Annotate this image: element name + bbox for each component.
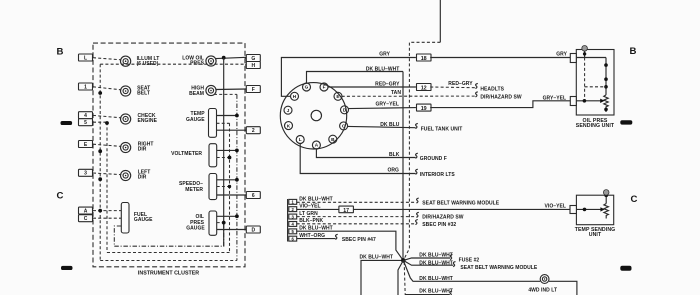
terminal 6 (245, 192, 260, 199)
oil sender case ground (582, 46, 588, 58)
wire HIGH BEAM second to bus (214, 93, 237, 95)
junction dot fuel row bus (98, 209, 102, 213)
wire junction down solid (398, 260, 403, 295)
svg-text:J: J (287, 108, 290, 113)
wire VIO-YEL pin2 to box 17 (297, 204, 339, 210)
lamp ILLUM LT (121, 56, 160, 67)
fuel gauge (121, 203, 153, 234)
svg-text:DK BLU–WHT: DK BLU–WHT (299, 197, 333, 203)
svg-text:SENDING UNIT: SENDING UNIT (576, 123, 615, 129)
instrument cluster dashed border (93, 43, 245, 267)
wire terminal 5 to bus (93, 121, 107, 123)
svg-text:2: 2 (252, 128, 255, 134)
svg-text:B: B (57, 47, 64, 58)
svg-text:19: 19 (421, 106, 427, 112)
svg-text:ORG: ORG (387, 168, 399, 174)
oil sender variable arm arrow (576, 99, 604, 103)
black dash marker left lower (61, 266, 73, 270)
wire BLK-PNK pin4 to SBEC pin 32 (297, 218, 457, 228)
wire LT GRN pin3 to dir/hazard sw (297, 211, 464, 221)
wire DK BLU-WHT from bottom into junction (360, 254, 404, 295)
wire HIGH BEAM lamp to terminal F (216, 88, 247, 91)
pin D (341, 106, 349, 114)
left bus vertical x100 (99, 64, 101, 260)
pin E (334, 92, 342, 100)
wire GRY-YEL pin D to box 19 (348, 101, 416, 108)
svg-text:TAN: TAN (391, 90, 401, 96)
temp sender terminal (570, 206, 576, 214)
terminal 4 (79, 112, 94, 119)
wire GRY to oil pres sending unit (430, 52, 570, 58)
lamp LOW OIL PRES (182, 56, 216, 67)
wire terminal A to fuel gauge (93, 210, 121, 212)
terminal A (79, 207, 94, 214)
wire temp gauge to bus 2 (217, 122, 230, 124)
svg-text:F: F (252, 87, 255, 93)
svg-text:BEAM: BEAM (189, 91, 204, 97)
wire DK BLU-WHT junction to seat belt warning module (403, 260, 538, 271)
oil pressure switch (604, 58, 608, 95)
black dash marker left upper (61, 121, 73, 125)
left bus vertical x107 (106, 122, 108, 252)
speedometer (179, 174, 217, 200)
connector C1 round body (280, 83, 346, 149)
svg-text:GRY–YEL: GRY–YEL (543, 95, 567, 101)
wire terminal C to fuel gauge (93, 217, 121, 219)
voltmeter (171, 144, 217, 167)
lamp CHECK ENGINE (121, 113, 158, 124)
svg-text:L: L (84, 55, 87, 61)
bottom loop wire middle (107, 252, 230, 254)
black dash marker right upper (620, 120, 632, 124)
splice box 17 (339, 206, 354, 214)
svg-text:SEAT BELT WARNING MODULE: SEAT BELT WARNING MODULE (422, 200, 499, 206)
pin F (320, 83, 328, 91)
svg-text:BLK–PNK: BLK–PNK (299, 218, 323, 224)
svg-text:DIR/HAZARD SW: DIR/HAZARD SW (480, 95, 521, 101)
oil sender terminal GRY (570, 54, 576, 63)
svg-text:H: H (251, 63, 255, 69)
lamp 4WD IND LT (528, 275, 557, 294)
svg-text:E: E (336, 94, 339, 99)
junction X (401, 258, 406, 263)
wire WHT-ORG pin6 to SBEC pin 47 (297, 233, 376, 243)
svg-text:G: G (305, 85, 309, 90)
pin H (291, 92, 299, 100)
svg-text:DK BLU–WHT: DK BLU–WHT (366, 66, 400, 72)
wire voltmeter to bus (217, 149, 239, 153)
junction dot seat belt bus (98, 91, 102, 95)
svg-text:3: 3 (84, 171, 87, 177)
pin J (284, 106, 292, 114)
letter C right (631, 194, 638, 205)
top feed wire dashed to junction (404, 42, 441, 259)
svg-text:L: L (299, 137, 302, 142)
junction dot check engine bus (105, 121, 109, 125)
lamp SEAT BELT (121, 85, 151, 96)
svg-text:VIO–YEL: VIO–YEL (299, 204, 320, 210)
splice box 19 (417, 104, 432, 112)
oil sender terminal GRY-YEL (570, 97, 576, 106)
temp gauge (186, 109, 216, 138)
black dash marker right lower (620, 266, 631, 271)
svg-text:UNIT: UNIT (589, 232, 602, 238)
svg-text:C: C (84, 216, 88, 222)
svg-text:GAUGE: GAUGE (186, 117, 205, 123)
wire DK BLU-WHT pin G up to bus (307, 66, 404, 83)
terminal E (79, 141, 94, 148)
letter B right (630, 46, 637, 57)
svg-text:DK BLU–WHT: DK BLU–WHT (419, 260, 453, 266)
wire oil gauge to bus 2 (217, 221, 226, 225)
oil sender resistor (604, 95, 608, 112)
svg-text:5: 5 (84, 120, 87, 126)
svg-text:DK BLU–WHT: DK BLU–WHT (299, 226, 333, 232)
wire terminal 4 to CHECK ENGINE lamp (93, 115, 121, 117)
svg-text:LT GRN: LT GRN (299, 211, 318, 217)
svg-text:DIR: DIR (138, 174, 147, 180)
svg-text:6: 6 (252, 193, 255, 199)
svg-text:D: D (251, 227, 255, 233)
svg-text:GAUGE: GAUGE (134, 217, 153, 223)
oil pres sending unit box (576, 50, 615, 130)
wire RED-GRY pin F to box 12 (328, 82, 416, 88)
right bus vertical x223 (223, 58, 225, 247)
terminal H (245, 62, 260, 69)
junction dot right dir bus (98, 149, 102, 153)
terminal 3 (79, 169, 94, 176)
terminal F (245, 86, 260, 93)
pin 5 (289, 229, 297, 234)
svg-text:12: 12 (421, 85, 427, 91)
lamp HIGH BEAM (189, 85, 216, 97)
svg-text:VIO–YEL: VIO–YEL (545, 204, 566, 210)
svg-text:HEADLTS: HEADLTS (480, 86, 504, 92)
svg-text:FUEL TANK UNIT: FUEL TANK UNIT (421, 126, 463, 132)
wire GRY-YEL to oil pres sending unit (430, 95, 570, 107)
svg-text:A: A (315, 143, 319, 148)
fuel gauge return wire (114, 226, 121, 246)
svg-text:C: C (631, 194, 638, 205)
wire DK BLU-WHT pin1 to seat belt warning module (297, 197, 500, 207)
wire DK BLU-WHT bottom row (405, 288, 453, 295)
svg-text:DIR: DIR (138, 146, 147, 152)
top feed wire solid (439, 0, 441, 42)
svg-text:FUSE #2: FUSE #2 (459, 258, 480, 264)
svg-text:DK BLU–WHT: DK BLU–WHT (419, 288, 453, 294)
svg-text:DIR/HAZARD SW: DIR/HAZARD SW (422, 215, 463, 221)
bottom loop wire inner (114, 223, 223, 247)
svg-text:DK BLU–WHT: DK BLU–WHT (419, 253, 453, 259)
lamp LEFT DIR (121, 169, 151, 180)
letter C left (57, 191, 64, 202)
pin B (329, 135, 337, 143)
wire terminal 3 to LEFT DIR lamp (93, 173, 121, 175)
svg-text:ENGINE: ENGINE (138, 118, 158, 124)
wire temp gauge to bus (217, 114, 239, 118)
terminal 1 (79, 83, 94, 90)
svg-text:18: 18 (421, 56, 427, 62)
wire DK BLU pin C to fuel tank unit (347, 122, 462, 132)
main DK BLU-WHT vertical wire (402, 72, 404, 259)
illumination bus row H (100, 63, 246, 65)
temp sender resistor (604, 204, 609, 219)
temp sender internal wire with arrow (576, 207, 604, 211)
temp sending unit box (575, 195, 616, 238)
svg-text:4WD IND LT: 4WD IND LT (528, 288, 557, 294)
svg-text:DK BLU–WHT: DK BLU–WHT (360, 254, 394, 260)
svg-text:DK BLU–WHT: DK BLU–WHT (419, 276, 453, 282)
letter B left (57, 47, 64, 58)
wire oil gauge to bus (217, 214, 239, 218)
pin 6 (289, 236, 297, 241)
wire temp gauge to terminal 2 (217, 129, 247, 131)
svg-text:BLK: BLK (389, 152, 400, 158)
svg-text:GRY: GRY (556, 52, 567, 58)
terminal 5 (79, 119, 94, 126)
terminal L (79, 54, 94, 61)
pin L (296, 136, 304, 144)
pin 3 (289, 214, 297, 219)
wire DK BLU-WHT pin5 to junction (297, 226, 404, 261)
wire junction down dashed (404, 262, 405, 295)
wire TAN pin E to DIR/HAZARD SW (342, 90, 522, 101)
pin 4 (289, 222, 297, 227)
pin K (285, 122, 293, 130)
pin C (340, 122, 348, 130)
wire from 4WD lamp down (549, 281, 577, 295)
svg-text:SBEC PIN #32: SBEC PIN #32 (422, 222, 456, 228)
pin G (303, 83, 311, 91)
wire BLK pin A to ground F (316, 149, 446, 162)
oil sender switch blade dashed (585, 58, 606, 101)
wire voltmeter to bus 2 (217, 156, 232, 160)
wire DK BLU-WHT junction to fuse 2 (403, 253, 479, 264)
lamp RIGHT DIR (121, 141, 154, 152)
terminal 2 (245, 127, 260, 134)
wire terminal L to ILLUM lamp (93, 58, 121, 60)
svg-text:RED–GRY: RED–GRY (448, 81, 473, 87)
wire ORG pin L to interior lts (300, 143, 455, 178)
svg-text:SBEC PIN #47: SBEC PIN #47 (342, 237, 376, 243)
svg-text:17: 17 (343, 208, 349, 214)
svg-text:DK BLU: DK BLU (380, 122, 400, 128)
svg-text:F: F (323, 85, 326, 90)
wire terminal 1 to SEAT BELT lamp (93, 87, 121, 90)
wire RED-GRY to HEADLTS (430, 81, 504, 92)
splice box 18 (417, 54, 432, 62)
svg-text:A: A (84, 209, 88, 215)
svg-text:PRES: PRES (190, 61, 204, 67)
svg-text:RED–GRY: RED–GRY (375, 82, 400, 88)
svg-text:1: 1 (84, 84, 87, 90)
right bus vertical x229 (229, 123, 231, 252)
svg-text:WHT–ORG: WHT–ORG (299, 233, 325, 239)
svg-text:INSTRUMENT CLUSTER: INSTRUMENT CLUSTER (138, 270, 199, 276)
svg-text:GRY–YEL: GRY–YEL (375, 101, 399, 107)
svg-text:GRY: GRY (379, 51, 390, 57)
svg-text:SEAT BELT WARNING MODULE: SEAT BELT WARNING MODULE (460, 265, 537, 271)
junction dot G row (222, 56, 226, 60)
svg-text:BELT: BELT (137, 90, 150, 96)
wire oil gauge to terminal D (217, 229, 247, 231)
oil pres gauge (186, 211, 216, 235)
pin 2 (289, 207, 297, 212)
svg-text:INTERIOR LTS: INTERIOR LTS (420, 172, 456, 178)
terminal G (245, 55, 260, 62)
wire LOW OIL lamp to terminal G (216, 57, 247, 58)
right bus vertical x237 (236, 94, 238, 260)
pin A (312, 141, 320, 149)
wire speedometer to bus (217, 178, 239, 182)
terminal C (79, 215, 94, 222)
junction dot left dir bus (98, 177, 102, 181)
svg-text:VOLTMETER: VOLTMETER (171, 151, 202, 157)
svg-text:B: B (630, 46, 637, 57)
wire VIO-YEL to temp sending unit (353, 204, 570, 210)
splice box 12 (417, 84, 432, 92)
wire GRY pin H to fuse box 18 (281, 51, 416, 96)
wire speedometer to terminal 6 (217, 194, 247, 196)
instrument cluster label (138, 270, 199, 276)
pin 1 (289, 199, 297, 204)
wire DK BLU-WHT junction to 4WD ind lt (403, 260, 540, 282)
bottom loop wire outer (100, 260, 237, 262)
connector C2 body (287, 199, 289, 242)
svg-text:C: C (57, 191, 64, 202)
temp sender case ground (603, 190, 609, 204)
svg-text:GROUND F: GROUND F (420, 156, 447, 162)
svg-text:GAUGE: GAUGE (186, 225, 205, 231)
terminal D (245, 226, 260, 233)
svg-text:METER: METER (185, 187, 203, 193)
oil sender internal top wire (576, 57, 606, 59)
wire terminal E to RIGHT DIR lamp (93, 144, 121, 146)
wire speedometer to bus 2 (217, 185, 232, 188)
